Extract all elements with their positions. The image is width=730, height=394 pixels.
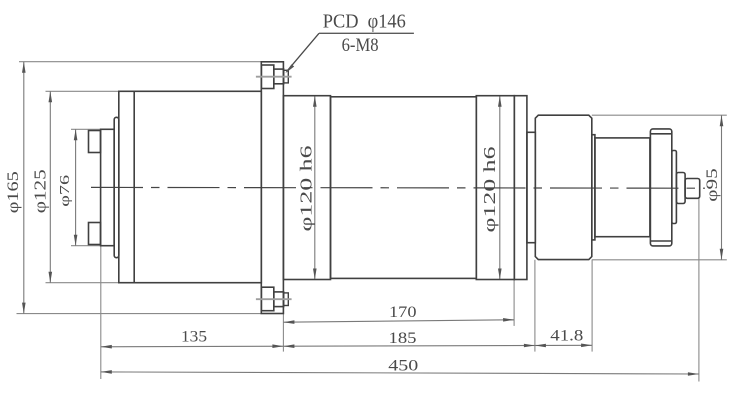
svg-text:φ125: φ125 — [30, 169, 49, 213]
extension vertical flange right x283.4 — [282, 314, 284, 352]
extension line phi165 top — [19, 61, 261, 63]
extension line phi95 top — [592, 114, 727, 116]
phi76 rear cylinder — [101, 129, 115, 245]
dimension 170 — [283, 320, 514, 322]
extension vertical left end x101 — [100, 246, 102, 379]
dimension line 135-185-41.8 — [101, 345, 592, 347]
dimension phi120 h6 first journal — [314, 96, 316, 280]
thin rear plate — [114, 117, 119, 257]
shaft step — [676, 173, 685, 204]
bottom bolt axis — [256, 298, 292, 300]
svg-text:135: 135 — [181, 329, 207, 346]
svg-text:6-M8: 6-M8 — [342, 35, 379, 56]
spacer disc — [514, 96, 527, 280]
step ring — [592, 135, 595, 240]
extension vertical block right x592.1 — [591, 260, 593, 352]
bottom flange bolt — [261, 287, 288, 311]
journal B phi120 h6 — [476, 96, 514, 280]
extension line phi125 top — [46, 90, 134, 92]
extension vertical shaft tip x698.9 — [698, 198, 700, 381]
svg-text:φ120 h6: φ120 h6 — [480, 147, 499, 233]
svg-text:41.8: 41.8 — [550, 328, 583, 345]
mounting flange plate phi165 — [261, 62, 283, 314]
shaft tip — [685, 179, 700, 199]
svg-text:φ76: φ76 — [57, 174, 72, 206]
svg-text:170: 170 — [389, 304, 417, 321]
svg-text:PCD φ146: PCD φ146 — [323, 12, 406, 33]
leader line to bolt — [287, 33, 320, 71]
extension line phi125 bottom — [46, 282, 134, 284]
extension vertical block left x534.9 — [534, 260, 536, 352]
dimension phi120 h6 second journal — [499, 96, 501, 280]
dimension phi165 — [23, 62, 25, 314]
extension line phi95 bottom — [592, 259, 727, 261]
dimension 450 — [101, 372, 699, 374]
rear connector bump bottom — [89, 223, 101, 245]
extension vertical journal B right x514 — [513, 280, 515, 326]
journal A phi120 h6 — [283, 96, 330, 280]
small front disc — [672, 151, 677, 224]
svg-text:185: 185 — [389, 330, 417, 347]
dimension phi95 — [721, 115, 723, 260]
dimension 185 arrows — [283, 344, 294, 348]
dimension 41.8 arrows — [535, 344, 546, 348]
rear connector bump top — [89, 131, 101, 153]
front cap ring — [650, 129, 671, 246]
svg-text:450: 450 — [388, 358, 418, 375]
middle housing — [331, 97, 477, 279]
leader shelf under PCD phi146 — [319, 32, 414, 34]
svg-text:φ95: φ95 — [704, 168, 721, 202]
main outlines — [89, 62, 700, 314]
dimension 135 arrows — [101, 345, 112, 349]
svg-text:φ165: φ165 — [5, 171, 22, 213]
phi125 end plate and motor body — [119, 91, 261, 282]
connecting hub — [527, 132, 535, 242]
front cap inner line bottom — [650, 240, 671, 242]
centerline main axis — [91, 186, 705, 189]
front housing section — [595, 138, 650, 237]
front cap inner line top — [650, 133, 671, 135]
extension line phi76 bottom — [71, 245, 101, 247]
top bolt axis — [256, 76, 292, 78]
dimension phi125 — [49, 91, 51, 282]
end plate inner edge — [133, 91, 135, 282]
extension line phi76 top — [71, 128, 101, 130]
top flange bolt — [261, 65, 288, 89]
svg-text:φ120 h6: φ120 h6 — [297, 146, 316, 232]
extension line phi165 bottom — [17, 313, 262, 315]
bearing block phi95 — [535, 115, 592, 259]
dimension phi76 — [75, 129, 77, 245]
